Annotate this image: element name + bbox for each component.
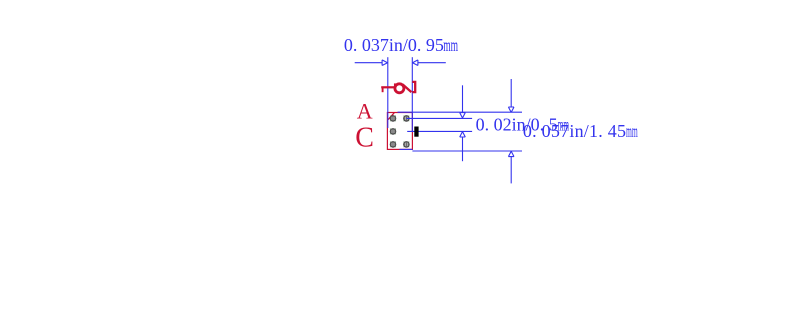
dimension line left (top width dim)	[355, 60, 388, 66]
dim arrow vertical 1 upper (0.5mm dim)	[460, 85, 466, 118]
dim arrow vertical 2 lower (1.45mm dim)	[508, 151, 514, 183]
dim arrow vertical 2 upper (1.45mm dim)	[508, 79, 514, 112]
svg-text:0. 037in/0. 95: 0. 037in/0. 95	[344, 35, 444, 55]
body outline rectangle	[387, 113, 412, 150]
pad 2 (top-right)	[404, 116, 410, 122]
pad 5 (bottom-right)	[404, 142, 410, 148]
dim arrow vertical 1 lower (0.5mm dim)	[460, 132, 466, 162]
extension line left vertical	[387, 57, 389, 128]
pin 1 marker diagonal	[388, 113, 394, 120]
svg-text:A: A	[357, 99, 373, 124]
pad 4 (bottom-left)	[390, 142, 396, 148]
extension line right vertical	[411, 57, 413, 131]
svg-text:C: C	[355, 123, 374, 154]
pad 1 (top-left)	[390, 116, 396, 122]
wire segment (blue over body bottom edge)	[400, 148, 413, 150]
dimension text 0.057in/1.45mm	[523, 121, 638, 141]
dimension line right (top width dim)	[413, 60, 446, 66]
dimension text 0.02in/0.5mm	[476, 115, 570, 135]
svg-text:mm: mm	[443, 36, 458, 56]
svg-text:0. 057in/1. 45: 0. 057in/1. 45	[523, 121, 626, 141]
pad 3 (middle-left)	[390, 129, 396, 135]
dimension text 0.037in/0.95mm	[344, 35, 458, 56]
polarity bar marker	[414, 127, 418, 137]
pin number 2 (rotated digit)	[395, 82, 415, 93]
extension line C (pad row 2)	[407, 130, 472, 132]
extension line A (top of pattern)	[398, 111, 523, 113]
extension line B (pad row 1)	[406, 117, 472, 119]
extension line D (bottom of pattern)	[412, 150, 522, 152]
svg-text:mm: mm	[626, 122, 638, 142]
pin number 1 (rotated digit)	[381, 83, 395, 92]
